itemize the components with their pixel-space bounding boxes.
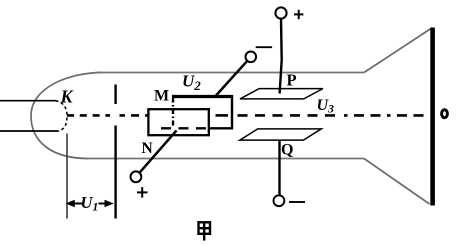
tube funnel bottom wall — [364, 159, 430, 205]
svg-text:U2: U2 — [182, 72, 201, 94]
svg-text:K: K — [60, 87, 75, 107]
filament lead bottom — [0, 130, 58, 132]
tube neck top wall — [97, 72, 364, 74]
plate P parallelogram — [240, 89, 323, 99]
grid electrode line (left U1 line) — [66, 134, 68, 219]
plate box bottom edge visible part (solid) — [209, 127, 233, 129]
filament lead top — [0, 100, 56, 102]
cathode K dashed dome — [56, 101, 68, 131]
beam axis dash-dot (funnel to screen) — [344, 114, 430, 117]
U1 right arrow — [99, 203, 107, 205]
minus sign (U2 supply) — [256, 46, 272, 48]
terminal minus circle (U2 supply) — [246, 52, 257, 63]
plate Q parallelogram — [240, 129, 321, 140]
svg-text:U3: U3 — [317, 97, 335, 116]
plate box front rectangle — [148, 109, 208, 135]
beam axis dashes (right of plate box) — [216, 114, 229, 117]
wire plate P to plus terminal — [280, 19, 282, 94]
anode upper half — [114, 85, 116, 105]
plus sign (U2 supply) — [137, 191, 148, 193]
plate box hidden bottom edge (dashed) — [161, 127, 209, 129]
svg-text:Q: Q — [281, 141, 293, 158]
terminal plus circle (U2 supply) — [131, 171, 142, 182]
screen (thick vertical bar) — [430, 28, 435, 206]
beam axis dashes (through P Q region) — [238, 114, 343, 117]
svg-text:N: N — [142, 140, 153, 157]
svg-text:M: M — [154, 87, 169, 104]
label jia (caption, drawn strokes) — [199, 222, 211, 234]
terminal plus circle (U3 supply, top) — [275, 7, 286, 18]
svg-text:U1: U1 — [81, 193, 99, 214]
U1 left arrow — [73, 203, 83, 205]
anode lower half — [114, 126, 116, 219]
label o (spot on screen) — [442, 110, 448, 118]
plate box back right edge — [231, 95, 233, 129]
svg-text:P: P — [287, 71, 297, 90]
wire plate M to minus terminal — [216, 61, 247, 96]
tube envelope bulb (left rounded end) — [31, 73, 103, 159]
beam axis dashes (cathode to anode) — [67, 114, 110, 117]
minus sign (U3 supply, bottom) — [289, 201, 305, 203]
terminal minus circle (U3 supply, bottom) — [274, 195, 285, 206]
wire plate N to plus terminal — [140, 131, 177, 173]
beam axis dashes (anode to plates) — [120, 114, 149, 117]
wire plate Q to minus terminal — [278, 141, 280, 196]
plus sign (U3 supply, top) — [294, 13, 303, 15]
tube funnel top wall — [364, 29, 431, 73]
tube neck bottom wall — [84, 158, 364, 160]
plate M top edge (thick) — [172, 95, 233, 98]
plate box hidden left edge (dash-dot) — [172, 98, 174, 128]
